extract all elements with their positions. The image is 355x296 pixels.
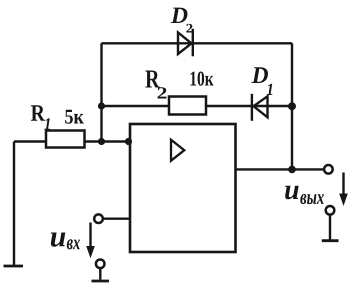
input terminal circle xyxy=(94,214,103,223)
label R1 xyxy=(31,105,45,120)
arrow input voltage xyxy=(89,223,91,249)
op-amp triangle symbol xyxy=(171,140,184,161)
wire feedback middle horizontal xyxy=(102,105,293,107)
resistor R1 xyxy=(46,131,85,148)
label u_vx input voltage xyxy=(51,233,66,247)
output terminal circle xyxy=(324,165,333,174)
wire left input down to ground xyxy=(13,142,15,267)
node dot D1 cathode right xyxy=(288,102,296,110)
node dot inverting input left xyxy=(98,138,105,145)
wire non-inverting input xyxy=(103,217,131,219)
node dot feedback top-left xyxy=(98,102,105,109)
diode D2 xyxy=(178,29,193,57)
input ground terminal circle xyxy=(96,260,105,269)
wire top branch horizontal xyxy=(102,42,293,44)
wire R1 to op-amp inverting input xyxy=(84,140,131,142)
ground left xyxy=(4,265,24,268)
node dot output junction xyxy=(288,166,296,174)
label D2 xyxy=(171,8,188,23)
arrow output voltage xyxy=(342,173,344,197)
label D1 xyxy=(252,67,269,83)
wire left vertical from top branch to inverting node xyxy=(100,43,102,141)
label u_vyx output voltage xyxy=(285,186,299,200)
label 10k value xyxy=(191,72,214,86)
node dot at op-amp inverting input xyxy=(125,138,132,145)
input ground xyxy=(99,268,101,280)
wire input to R1 xyxy=(14,140,47,142)
resistor R2 xyxy=(169,97,206,115)
output ground xyxy=(329,215,331,240)
wire right vertical feedback xyxy=(291,43,293,169)
label 5k value xyxy=(65,110,84,124)
diode D1 xyxy=(252,94,268,121)
op-amp U1 body xyxy=(130,124,236,252)
label R2 xyxy=(145,71,159,88)
output ground terminal circle xyxy=(326,206,335,215)
wire output xyxy=(235,168,324,170)
